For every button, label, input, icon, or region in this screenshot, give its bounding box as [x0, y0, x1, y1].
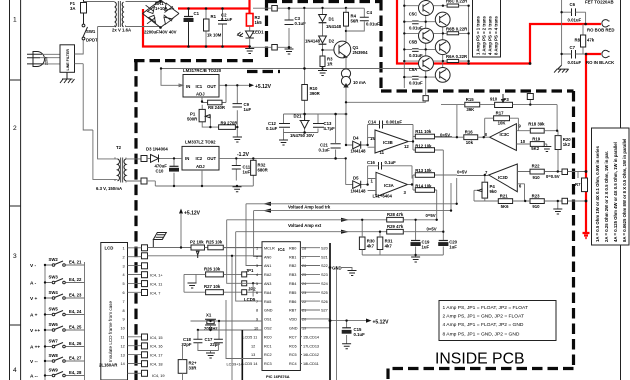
pad row5 [242, 281, 247, 286]
svg-text:8 Amp PS = 4 trans: 8 Amp PS = 4 trans [494, 16, 499, 55]
svg-text:R1: R1 [211, 14, 217, 19]
ground below line filter [60, 72, 75, 83]
svg-text:0.01uF: 0.01uF [568, 18, 582, 23]
svg-text:21: 21 [302, 309, 306, 313]
svg-text:33R: 33R [189, 366, 198, 371]
svg-text:S22: S22 [321, 264, 328, 268]
line filter box [60, 45, 75, 73]
svg-text:IC4, 11: IC4, 11 [150, 282, 162, 287]
svg-text:10K: 10K [498, 120, 507, 125]
svg-text:390R: 390R [310, 91, 321, 96]
pad LCD1 [142, 245, 148, 251]
svg-text:D1: D1 [329, 17, 335, 22]
ground mid rail [362, 255, 443, 257]
svg-text:V --: V -- [30, 359, 38, 365]
svg-text:0=5V: 0=5V [427, 227, 437, 232]
svg-text:E4, 24: E4, 24 [69, 309, 82, 314]
dashed PCB boundary short horizontal y71 [247, 70, 280, 73]
pad LCD row13 [142, 352, 148, 358]
svg-text:IC4, 1+: IC4, 1+ [150, 273, 163, 278]
svg-text:D2: D2 [329, 39, 335, 44]
svg-text:220V: 220V [45, 56, 49, 65]
diode D2 [323, 44, 338, 51]
svg-text:P2 10k: P2 10k [190, 240, 204, 245]
svg-text:R18 39k: R18 39k [528, 121, 545, 126]
svg-text:SW9: SW9 [49, 368, 59, 373]
capacitor C15 [346, 321, 348, 344]
svg-text:11: 11 [121, 336, 125, 340]
pad below bank on dashed [423, 96, 428, 101]
svg-text:IC4, 16: IC4, 16 [150, 344, 163, 349]
switch SW2 row [52, 261, 65, 266]
svg-text:RC5: RC5 [289, 353, 297, 357]
svg-text:LT1+6404: LT1+6404 [373, 193, 393, 198]
capacitor C21 [335, 114, 337, 158]
svg-text:RB7: RB7 [289, 309, 296, 313]
svg-text:5K2: 5K2 [531, 146, 539, 151]
svg-text:IC4, 19: IC4, 19 [152, 373, 165, 378]
wire plug to line filter [40, 54, 60, 64]
svg-text:RA2: RA2 [264, 273, 271, 277]
svg-text:2x V 1.6A: 2x V 1.6A [112, 28, 131, 33]
svg-text:20: 20 [302, 318, 306, 322]
resistor R1 [205, 9, 207, 47]
svg-text:24: 24 [302, 282, 306, 286]
svg-text:Voltaed Amp ext: Voltaed Amp ext [288, 223, 322, 228]
svg-text:1: 1 [13, 17, 17, 24]
LCD connector box [101, 243, 128, 380]
svg-text:RO IN BLACK: RO IN BLACK [586, 60, 615, 65]
dashed PCB boundary vertical x266 [265, 0, 268, 62]
ground below C15 [342, 344, 351, 349]
signal arrow Voltaed Amp lead trk [263, 202, 271, 206]
svg-text:RC1: RC1 [264, 344, 272, 348]
+5.12V arrow right of PIC [330, 320, 366, 322]
wire T1 secondary to bridge [126, 2, 161, 28]
svg-text:10k: 10k [466, 140, 474, 145]
svg-text:3A: 3A [70, 6, 76, 11]
svg-text:0=5V: 0=5V [457, 170, 467, 175]
dashed PCB boundary right vertical x573 [572, 91, 575, 367]
svg-text:0.1uF: 0.1uF [354, 332, 366, 337]
wire IC3D input row [457, 175, 489, 177]
capacitor C4 [346, 8, 364, 31]
wire crystal to PIC [191, 319, 263, 339]
svg-text:1N4148: 1N4148 [351, 189, 367, 194]
svg-text:RB5: RB5 [289, 291, 296, 295]
transistor Q1 [334, 41, 351, 58]
svg-text:3: 3 [13, 253, 17, 260]
svg-text:R19: R19 [532, 136, 540, 141]
svg-text:4 Amp PS = 3 trans: 4 Amp PS = 3 trans [488, 16, 493, 55]
svg-text:16LCD12: 16LCD12 [303, 353, 319, 357]
transformer T1 [115, 1, 124, 27]
svg-text:1A = 0.5 Ohm 1W or 4X 0.1 Ohm,: 1A = 0.5 Ohm 1W or 4X 0.1 Ohm, 0.5W in s… [595, 145, 600, 242]
svg-text:2 Amp PS = 2 trans: 2 Amp PS = 2 trans [482, 16, 487, 55]
wire ADJ IC2 to ground rail [148, 170, 254, 186]
svg-text:OS1: OS1 [264, 318, 272, 322]
svg-text:19: 19 [302, 327, 306, 331]
svg-text:E4, 22: E4, 22 [69, 277, 82, 282]
resistor R8 240R [202, 85, 226, 102]
pad op-amp out1 [562, 169, 568, 175]
svg-text:28: 28 [302, 246, 306, 250]
op-amp IC3A [376, 172, 408, 197]
ground D21 [279, 140, 288, 145]
ground below C9 [233, 137, 242, 142]
svg-text:R6B 0.22R: R6B 0.22R [446, 26, 468, 31]
svg-text:1N4148: 1N4148 [351, 149, 367, 154]
capacitor C1 [184, 9, 193, 47]
svg-text:LED1: LED1 [253, 30, 265, 35]
resistor R2 (red outline) [246, 14, 253, 27]
pad op-amp out2 [562, 198, 568, 204]
switch matrix right bus [84, 262, 86, 380]
pad LCD row14 [142, 361, 148, 367]
svg-text:IC3B: IC3B [383, 140, 393, 145]
svg-text:DPDT: DPDT [86, 38, 98, 43]
note box amp transistor count [473, 0, 501, 57]
svg-text:1uF: 1uF [244, 107, 252, 112]
svg-text:IN: IN [186, 84, 190, 89]
bus vertical 2 [336, 266, 338, 380]
wire caps to ground [198, 343, 219, 353]
svg-text:22pF: 22pF [182, 342, 192, 347]
svg-text:LM337LZ TO92: LM337LZ TO92 [185, 140, 216, 145]
svg-text:SW6: SW6 [49, 322, 59, 327]
svg-text:SW5: SW5 [49, 307, 59, 312]
svg-text:AN1: AN1 [264, 264, 271, 268]
capacitor C11 [235, 158, 237, 180]
wire long vertical x232 [231, 256, 233, 380]
svg-text:SW2: SW2 [49, 257, 59, 262]
svg-text:9: 9 [123, 318, 125, 322]
svg-text:S26: S26 [321, 300, 328, 304]
svg-text:23: 23 [302, 291, 306, 295]
svg-text:680R: 680R [258, 168, 269, 173]
svg-text:VDD: VDD [289, 318, 297, 322]
bus vertical bold [329, 243, 331, 380]
resistor R10 390R [304, 69, 306, 115]
frame border right [620, 0, 622, 380]
svg-text:SW7: SW7 [49, 339, 59, 344]
svg-text:47k: 47k [587, 38, 595, 43]
svg-text:1uF: 1uF [422, 245, 430, 250]
resistor R32 680R [252, 158, 254, 186]
svg-text:C5B: C5B [409, 39, 418, 44]
svg-text:R17: R17 [496, 111, 504, 116]
svg-text:IC3D: IC3D [498, 175, 508, 180]
svg-text:R7: R7 [575, 182, 581, 187]
wire pad rows [148, 248, 282, 256]
svg-text:17LCD13: 17LCD13 [303, 344, 319, 348]
svg-text:T2: T2 [116, 145, 122, 150]
svg-text:A ++: A ++ [30, 345, 40, 351]
svg-text:E4, 27: E4, 27 [69, 356, 82, 361]
dashed PCB boundary top horizontal y91 [381, 89, 574, 92]
connector RO IN BLACK [602, 50, 610, 57]
resistor R20 1k2 [555, 136, 561, 150]
svg-text:6: 6 [256, 291, 258, 295]
svg-text:LCD5 11: LCD5 11 [243, 335, 258, 339]
svg-text:Insulate LCD frame from case: Insulate LCD frame from case [108, 301, 113, 362]
pad raw- through boundary [272, 45, 278, 51]
pad raw+ through boundary [272, 6, 278, 12]
pad LCD row4 [142, 272, 148, 278]
svg-text:0.1uF: 0.1uF [319, 148, 331, 153]
svg-text:1: 1 [256, 246, 258, 250]
ground below LED [245, 47, 254, 54]
svg-text:10: 10 [520, 139, 525, 144]
svg-text:0=0.5V: 0=0.5V [546, 174, 560, 179]
svg-text:1k2: 1k2 [563, 142, 571, 147]
svg-text:S24: S24 [321, 282, 328, 286]
switch SW3 row [52, 279, 65, 284]
svg-text:12: 12 [121, 344, 125, 348]
wire bus drop to R10 [303, 8, 305, 69]
+5.12V supply arrow mid-left [179, 209, 183, 214]
svg-text:-1.2V: -1.2V [237, 152, 250, 158]
svg-text:1R: 1R [327, 62, 333, 67]
ground between R26 R27 [184, 274, 196, 292]
svg-text:C14: C14 [368, 119, 376, 124]
svg-text:A --: A -- [30, 374, 38, 380]
svg-text:2L160AR: 2L160AR [99, 363, 118, 368]
svg-text:0.001uF: 0.001uF [386, 119, 402, 124]
svg-text:IC3A: IC3A [384, 183, 394, 188]
wire main bus y68.5 [161, 68, 426, 70]
diode D1 [322, 8, 324, 36]
svg-text:PIC 16F876A: PIC 16F876A [266, 374, 290, 379]
svg-text:RO BOB RED: RO BOB RED [587, 28, 614, 33]
pad LCD row6 [142, 290, 148, 296]
bank row 3 transistor pair [419, 56, 451, 82]
bank row 1 transistor pair [419, 1, 451, 27]
red ground at return bottom [583, 233, 590, 238]
resistor R4 56R [345, 8, 347, 41]
ground below bus at R3 [318, 69, 327, 76]
svg-text:D4: D4 [353, 136, 359, 141]
svg-text:R25 10k: R25 10k [206, 240, 223, 245]
wire filter to switch [75, 40, 116, 179]
svg-text:1: 1 [123, 247, 125, 251]
AC plug J1 [27, 52, 45, 67]
svg-text:12: 12 [251, 344, 255, 348]
switch matrix left bus [44, 265, 46, 380]
wire LCD pins to pads [128, 248, 142, 364]
svg-text:IC3C: IC3C [500, 132, 510, 137]
red wire RO IN BLACK return [586, 54, 601, 233]
svg-text:3: 3 [256, 264, 258, 268]
svg-text:7: 7 [256, 300, 258, 304]
svg-text:R8: R8 [575, 38, 581, 43]
svg-text:ADJ: ADJ [196, 164, 205, 169]
svg-text:5K6: 5K6 [501, 204, 509, 209]
jumper configuration table [439, 301, 556, 341]
svg-text:Voltaed Amp lead trk: Voltaed Amp lead trk [288, 204, 331, 209]
svg-text:E4, 21: E4, 21 [69, 260, 82, 265]
svg-text:3: 3 [123, 264, 125, 268]
svg-text:2 Amp PS, JP1 = GND, JP2 =: 2 Amp PS, JP1 = GND, JP2 = FLOAT [443, 313, 524, 319]
capacitor C17 22pF [214, 339, 223, 343]
switch SW4 row [52, 294, 65, 299]
signal arrow 4 [341, 230, 349, 234]
LED1 [249, 26, 251, 31]
red wire output bus to RO BOB RED [397, 0, 601, 64]
wire C14 feedback loop [368, 125, 413, 148]
svg-text:SW1: SW1 [86, 29, 96, 34]
svg-text:2A = 0.25 Ohm 2W or 2 X 0.5 Oh: 2A = 0.25 Ohm 2W or 2 X 0.5 Ohm, 1W in p… [604, 151, 609, 242]
ground right of R19 [542, 147, 551, 152]
red wire rectifier box top [178, 0, 250, 14]
svg-text:2: 2 [13, 125, 17, 132]
svg-text:910: 910 [490, 97, 498, 102]
capacitor C2 [222, 9, 224, 47]
ground below R23 row [557, 201, 559, 209]
svg-text:IC4, 7: IC4, 7 [150, 291, 160, 296]
svg-text:15LCD14: 15LCD14 [303, 335, 319, 339]
svg-text:RB2: RB2 [289, 264, 296, 268]
bank bus wires [404, 0, 468, 88]
svg-text:R16: R16 [465, 130, 473, 135]
svg-text:R26 10k: R26 10k [204, 267, 221, 272]
svg-text:C6: C6 [570, 2, 576, 7]
svg-text:S21: S21 [321, 255, 328, 259]
svg-text:5: 5 [256, 282, 258, 286]
svg-text:2: 2 [123, 255, 125, 259]
switch SW6 row [52, 326, 65, 331]
svg-text:26: 26 [302, 264, 306, 268]
svg-text:8 Amp PS, JP1 = GND, JP2 =: 8 Amp PS, JP1 = GND, JP2 = GND [443, 332, 520, 338]
wire verticals arrows to PIC [223, 204, 262, 301]
svg-text:22: 22 [302, 300, 306, 304]
svg-text:IC4: IC4 [278, 247, 285, 252]
svg-text:R27 10k: R27 10k [204, 284, 221, 289]
svg-text:+5.12V: +5.12V [255, 84, 272, 90]
svg-text:LCD5: LCD5 [244, 297, 256, 302]
svg-text:0.1uF: 0.1uF [385, 160, 397, 165]
pad LCD row11 [142, 334, 148, 340]
svg-text:C7: C7 [570, 45, 576, 50]
pad LCD2 [142, 253, 148, 259]
svg-text:R6A 0.22R: R6A 0.22R [446, 54, 468, 59]
switch SW5 row [52, 311, 65, 316]
svg-text:+5.12V: +5.12V [373, 320, 390, 326]
svg-text:AN0: AN0 [264, 255, 271, 259]
svg-text:4: 4 [123, 273, 125, 277]
capacitor C3 [288, 8, 290, 47]
wire T2 primary bottom [115, 157, 118, 181]
svg-text:C4: C4 [367, 10, 373, 15]
svg-text:LCD5 14: LCD5 14 [243, 362, 258, 366]
resistor R7 [582, 178, 588, 192]
svg-text:910: 910 [532, 204, 540, 209]
svg-text:C5A: C5A [409, 67, 418, 72]
wire IC1 out +5.12V [219, 84, 249, 86]
svg-text:910: 910 [533, 175, 541, 180]
svg-text:E4, 23: E4, 23 [69, 293, 82, 298]
svg-text:8: 8 [256, 309, 258, 313]
svg-text:RC0: RC0 [264, 335, 272, 339]
svg-text:11: 11 [380, 150, 385, 155]
ground IC2 [233, 186, 242, 192]
svg-text:IC1: IC1 [196, 84, 203, 89]
svg-text:OS2: OS2 [264, 327, 272, 331]
svg-text:25: 25 [302, 273, 306, 277]
svg-text:RC7: RC7 [289, 335, 297, 339]
svg-text:10 mA: 10 mA [353, 80, 366, 85]
svg-text:RB0: RB0 [289, 246, 296, 250]
frame border left [10, 0, 21, 380]
svg-text:AN3: AN3 [264, 282, 271, 286]
svg-text:IN: IN [185, 156, 189, 161]
wire contrast row [226, 300, 262, 359]
svg-text:ADJ: ADJ [196, 92, 205, 97]
svg-text:IC4, 15: IC4, 15 [150, 335, 163, 340]
svg-text:RC2: RC2 [264, 353, 272, 357]
svg-text:0.1uF: 0.1uF [221, 17, 233, 22]
svg-text:V ++: V ++ [30, 328, 40, 334]
ground flag P2 [152, 240, 154, 248]
svg-text:A -: A - [30, 281, 37, 287]
svg-text:RC3: RC3 [264, 362, 272, 366]
current source 10mA [345, 57, 347, 146]
svg-text:RC4: RC4 [289, 362, 297, 366]
svg-text:2N3904: 2N3904 [353, 50, 369, 55]
wire PIC right pins to bus [300, 248, 330, 364]
svg-text:SW4: SW4 [49, 290, 59, 295]
svg-text:10: 10 [121, 327, 125, 331]
svg-text:SW8: SW8 [49, 353, 59, 358]
svg-text:0.01uF: 0.01uF [366, 22, 380, 27]
wire raw+ into IC1 [161, 69, 183, 87]
svg-text:LCD: LCD [105, 246, 114, 251]
svg-text:R15: R15 [466, 97, 474, 102]
svg-text:1k5: 1k5 [255, 20, 263, 25]
svg-text:8: 8 [123, 309, 125, 313]
svg-text:OUT: OUT [207, 84, 216, 89]
svg-text:9k0: 9k0 [490, 189, 498, 194]
rotated ohm note box [592, 128, 630, 245]
svg-text:E4, 28: E4, 28 [69, 370, 82, 375]
capacitor C13 [313, 124, 324, 128]
wire pads through boundary to R7 [568, 172, 587, 202]
pad T2 out 1 [141, 156, 147, 162]
svg-text:1N4750 30V: 1N4750 30V [290, 133, 314, 138]
resistor R31 4k7 [377, 237, 383, 250]
capacitor C19 [415, 220, 417, 255]
bridge rectifier BR1 [143, 0, 180, 28]
resistor R24 [178, 360, 187, 374]
op-amp IC3B [375, 130, 408, 153]
svg-text:R29 47k: R29 47k [387, 224, 404, 229]
svg-text:4A = 0.125 Ohm 4W or 4X 0.5 Oh: 4A = 0.125 Ohm 4W or 4X 0.5 Ohm, 1W in p… [613, 142, 618, 242]
capacitor C12 [279, 124, 290, 128]
svg-text:LCD9+14: LCD9+14 [227, 363, 243, 367]
svg-text:E4, 26: E4, 26 [69, 341, 82, 346]
ground raw- [285, 47, 294, 54]
svg-text:1uF: 1uF [243, 170, 251, 175]
svg-text:E4, 25: E4, 25 [69, 325, 82, 330]
svg-text:0.01uF: 0.01uF [568, 60, 582, 65]
pad T2 out 2 [141, 178, 147, 184]
svg-text:1 Amp PS, JP1 = FLOAT, JP2 =: 1 Amp PS, JP1 = FLOAT, JP2 = FLOAT [443, 305, 528, 311]
svg-text:S27: S27 [321, 309, 328, 313]
resistor R8a 47k [582, 24, 584, 54]
svg-text:LINE FILTER: LINE FILTER [66, 49, 70, 71]
svg-text:39K: 39K [466, 107, 475, 112]
svg-text:500R: 500R [187, 117, 198, 122]
